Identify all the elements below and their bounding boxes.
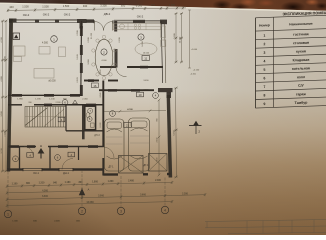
svg-text:4: 4 — [263, 59, 265, 63]
svg-text:3.700: 3.700 — [1, 148, 3, 154]
svg-text:1: 1 — [53, 37, 55, 41]
svg-text:2.400: 2.400 — [54, 220, 60, 223]
svg-text:ДН-3: ДН-3 — [94, 135, 100, 137]
svg-text:940: 940 — [83, 4, 88, 8]
svg-text:гараж: гараж — [296, 92, 307, 96]
svg-text:3: 3 — [120, 209, 122, 213]
svg-text:600: 600 — [121, 4, 126, 8]
svg-text:1.190: 1.190 — [35, 99, 41, 101]
kitchen counter top — [114, 23, 161, 30]
kitchen table — [135, 43, 157, 55]
svg-text:ДГ-1: ДГ-1 — [143, 164, 149, 167]
svg-text:3: 3 — [263, 51, 265, 55]
svg-text:940: 940 — [53, 181, 58, 184]
svg-text:800: 800 — [26, 183, 31, 185]
title block fragment — [205, 220, 326, 222]
svg-text:1.130: 1.130 — [49, 99, 55, 101]
top wall right corner block — [160, 20, 167, 25]
svg-text:1.180: 1.180 — [65, 182, 71, 184]
room 7 label — [88, 108, 93, 113]
svg-text:2.040: 2.040 — [100, 92, 102, 98]
svg-text:9: 9 — [15, 157, 17, 161]
svg-text:столовая: столовая — [293, 41, 309, 46]
svg-text:холл: холл — [297, 75, 305, 79]
svg-text:4.300: 4.300 — [42, 189, 49, 192]
bottom dim row 3 — [7, 195, 205, 200]
section mark 2 — [189, 125, 202, 127]
svg-text:1.980: 1.980 — [169, 3, 176, 7]
dining table ellipse + chairs — [95, 39, 113, 76]
svg-text:2.180: 2.180 — [55, 102, 61, 104]
axis 2 — [81, 170, 83, 207]
kitchen counter right — [161, 26, 166, 38]
svg-text:940: 940 — [33, 220, 37, 223]
room 6 label (hall) — [62, 100, 68, 106]
garage gate 1 — [119, 156, 144, 174]
tambour area box — [27, 153, 34, 158]
kitchen right wall (thin double) — [161, 21, 162, 83]
svg-text:13.080: 13.080 — [86, 201, 94, 204]
room 3 label — [138, 34, 144, 40]
svg-text:1.240: 1.240 — [77, 54, 79, 60]
background fabric — [0, 0, 326, 30]
svg-text:±0.000: ±0.000 — [48, 80, 56, 83]
svg-text:2.120: 2.120 — [77, 77, 79, 83]
svg-text:Кладовая: Кладовая — [293, 58, 310, 63]
rug / table low — [34, 69, 54, 79]
svg-text:5: 5 — [263, 68, 265, 72]
room 1 label — [51, 36, 58, 43]
tambour walls — [19, 147, 21, 170]
svg-text:1.400: 1.400 — [157, 157, 159, 163]
svg-text:1: 1 — [263, 34, 265, 38]
svg-text:Наименование: Наименование — [289, 22, 313, 27]
room 2 label — [101, 49, 107, 55]
door ДВ-2 opening + double arcs — [93, 20, 95, 23]
right dimension chains upper — [175, 14, 177, 63]
svg-text:5.300: 5.300 — [174, 33, 176, 39]
svg-text:А: А — [40, 144, 42, 148]
svg-text:1.300: 1.300 — [108, 181, 114, 183]
svg-text:6: 6 — [57, 156, 59, 160]
svg-text:гостиная: гостиная — [293, 32, 309, 37]
svg-text:3: 3 — [140, 35, 142, 39]
top exterior wall: corner block — [9, 19, 17, 23]
long interior wall with blocks — [8, 146, 36, 148]
section mark A top — [38, 148, 45, 154]
svg-text:2.480: 2.480 — [128, 180, 134, 183]
svg-text:4.000: 4.000 — [101, 60, 107, 62]
svg-text:11: 11 — [144, 56, 147, 60]
svg-text:1.980: 1.980 — [17, 99, 23, 101]
right side dark chunk (wall junction) — [158, 88, 173, 92]
svg-text:2.200: 2.200 — [119, 37, 121, 43]
svg-text:1: 1 — [7, 212, 9, 216]
interior wall room2|kitchen (upper+lower stubs) — [114, 21, 117, 32]
svg-text:4.500: 4.500 — [42, 42, 49, 45]
svg-text:7: 7 — [89, 109, 91, 113]
svg-text:360: 360 — [76, 221, 80, 223]
svg-text:С/У: С/У — [298, 84, 305, 88]
svg-text:10.100: 10.100 — [180, 36, 182, 43]
outer vertical dim line x=189 — [189, 10, 191, 68]
hall area box — [68, 152, 75, 157]
windows in top wall (sill lines) — [16, 19, 35, 21]
right dimension chain lower — [176, 88, 177, 177]
svg-text:4: 4 — [155, 94, 157, 98]
left wall inner face line — [10, 21, 12, 147]
svg-text:1.100: 1.100 — [12, 183, 18, 185]
wc/boiler room dark outline — [85, 106, 96, 130]
axis 4 — [164, 178, 166, 207]
svg-text:кухня: кухня — [296, 49, 306, 53]
svg-text:3.500: 3.500 — [1, 111, 3, 117]
svg-text:960: 960 — [157, 117, 159, 121]
svg-text:Номер: Номер — [259, 23, 270, 27]
svg-text:4: 4 — [61, 118, 63, 122]
top wall segment left of door — [86, 19, 94, 22]
kitchen bottom wall — [100, 66, 116, 68]
paper lit edge — [0, 0, 326, 14]
svg-text:16.000: 16.000 — [143, 53, 150, 55]
svg-text:ОК-2: ОК-2 — [23, 13, 30, 17]
svg-text:ДН-1: ДН-1 — [63, 171, 69, 175]
left exterior wall — [7, 19, 13, 172]
svg-text:Тамбур: Тамбур — [295, 101, 308, 105]
svg-text:1.500: 1.500 — [42, 4, 49, 8]
svg-text:ОК-2: ОК-2 — [64, 12, 71, 16]
svg-text:6.600: 6.600 — [42, 196, 48, 198]
svg-text:ДГ-1: ДГ-1 — [108, 166, 114, 169]
garage interior vertical dim line — [158, 100, 160, 175]
bottom dim row 2 + section arrow A — [7, 191, 82, 193]
svg-text:10: 10 — [138, 93, 142, 97]
living room bottom wall — [9, 94, 83, 96]
wc fixtures — [86, 113, 90, 118]
car 1 — [105, 119, 125, 171]
garage dim line — [104, 111, 166, 112]
area box 10 (storeroom) — [137, 92, 144, 97]
svg-text:4: 4 — [164, 208, 166, 212]
axis 1 — [7, 172, 9, 211]
svg-text:2: 2 — [198, 130, 200, 134]
axis 3 — [120, 176, 122, 207]
svg-text:ОК-1: ОК-1 — [33, 171, 39, 175]
room 4 label circle — [153, 93, 159, 99]
svg-text:9: 9 — [263, 102, 265, 106]
svg-text:2: 2 — [103, 50, 105, 54]
top wall piers — [35, 19, 39, 22]
staircase hatch — [25, 107, 66, 128]
svg-text:1.340: 1.340 — [12, 220, 18, 223]
svg-text:2.400: 2.400 — [157, 137, 159, 143]
garage right wall — [167, 95, 173, 178]
svg-text:1.310: 1.310 — [39, 183, 45, 185]
svg-text:16: 16 — [93, 84, 97, 88]
interior door arcs bottom rooms — [24, 147, 33, 156]
svg-text:ОК-2: ОК-2 — [137, 14, 144, 18]
svg-text:2.280: 2.280 — [182, 193, 188, 195]
svg-text:8: 8 — [263, 93, 265, 97]
svg-text:1.500: 1.500 — [22, 5, 29, 9]
bottom dim row 1 — [7, 182, 172, 186]
svg-text:6.180: 6.180 — [100, 122, 102, 128]
svg-text:-0.150: -0.150 — [190, 74, 197, 76]
room 6b label — [55, 155, 61, 161]
garage gate 2 — [149, 154, 168, 172]
svg-text:440: 440 — [9, 5, 14, 9]
svg-text:2: 2 — [81, 209, 83, 213]
svg-text:7.300: 7.300 — [4, 131, 6, 137]
svg-text:2.480: 2.480 — [155, 179, 161, 182]
car 2 — [129, 118, 150, 171]
svg-text:ОК-2: ОК-2 — [43, 13, 50, 17]
svg-text:1.500: 1.500 — [136, 3, 143, 7]
svg-text:4: 4 — [29, 153, 31, 157]
svg-text:2.500: 2.500 — [88, 37, 90, 43]
svg-text:200: 200 — [28, 102, 32, 104]
svg-text:3.490: 3.490 — [143, 80, 149, 82]
table grid — [256, 15, 326, 17]
garage front wall — [103, 173, 118, 175]
svg-text:3.060: 3.060 — [88, 59, 90, 65]
interior wall room1|room2 with blocks — [80, 21, 83, 95]
svg-text:+3.000: +3.000 — [191, 49, 198, 51]
svg-text:4.780: 4.780 — [1, 37, 3, 43]
svg-text:1.200: 1.200 — [100, 69, 102, 75]
svg-text:7: 7 — [263, 85, 265, 89]
svg-text:6.460: 6.460 — [173, 130, 175, 136]
corridor door arc — [116, 67, 127, 77]
svg-text:8.800: 8.800 — [4, 56, 6, 62]
svg-text:3.300: 3.300 — [100, 4, 107, 8]
top wall pier between kitchen windows — [133, 20, 145, 23]
elevation mark box — [13, 33, 20, 40]
bottom exterior wall with OK-1 and DN-1 — [7, 168, 23, 170]
small triangle mark — [73, 100, 78, 104]
dining area box — [92, 83, 99, 88]
svg-text:2.060: 2.060 — [82, 99, 88, 101]
bottom dim row 4 overall — [7, 202, 172, 206]
svg-text:1.800: 1.800 — [92, 181, 98, 183]
top wall T-junction at interior wall — [77, 19, 87, 23]
room 9 label — [13, 156, 19, 162]
svg-text:900: 900 — [151, 3, 156, 7]
cluster bottom wall — [66, 130, 103, 132]
svg-text:8: 8 — [112, 112, 114, 116]
wall x=66 — [65, 105, 67, 131]
svg-text:21.000: 21.000 — [91, 32, 93, 39]
svg-text:2.500: 2.500 — [77, 30, 79, 36]
svg-text:6: 6 — [263, 76, 265, 80]
garage top wall — [99, 89, 154, 91]
svg-text:котельная: котельная — [292, 66, 310, 71]
dining bottom wall — [84, 80, 99, 82]
kitchen area box 11 — [142, 56, 150, 61]
svg-text:3.600: 3.600 — [140, 194, 146, 196]
svg-text:4: 4 — [71, 153, 73, 157]
top dimension chain — [7, 8, 186, 10]
wall hall|wc block — [82, 105, 85, 140]
svg-text:21: 21 — [126, 123, 130, 127]
svg-text:4.740: 4.740 — [127, 108, 133, 111]
svg-text:800: 800 — [79, 182, 84, 184]
storage room 4 area box — [58, 117, 65, 122]
svg-text:4.000: 4.000 — [1, 76, 3, 82]
garage area box — [124, 123, 132, 128]
room 5 label — [87, 117, 92, 122]
svg-text:ДВ-2: ДВ-2 — [104, 12, 111, 16]
room 8 label — [110, 111, 116, 117]
left dimension chains — [2, 21, 4, 171]
svg-text:3.000: 3.000 — [98, 195, 104, 197]
hall|garage wall — [102, 81, 104, 148]
svg-text:А: А — [88, 189, 90, 192]
svg-text:1.500: 1.500 — [63, 4, 70, 8]
sofa group — [14, 46, 26, 56]
svg-text:2: 2 — [263, 42, 265, 46]
svg-text:+0.150: +0.150 — [193, 70, 200, 72]
hall top wall — [8, 104, 22, 106]
